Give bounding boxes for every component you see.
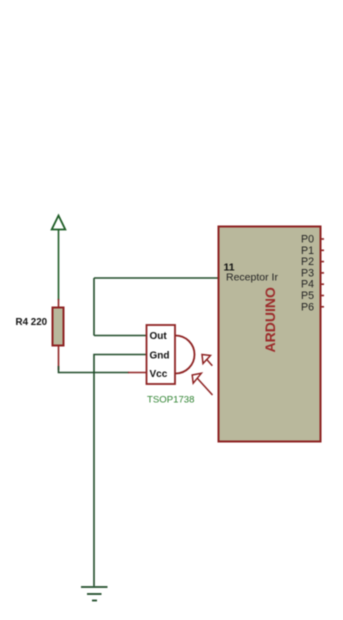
ground symbol (81, 587, 108, 601)
svg-text:Gnd: Gnd (150, 351, 170, 362)
wire vertical segment pin11 node down to Out wire (93, 278, 95, 336)
svg-text:Vcc: Vcc (150, 369, 168, 380)
wire from node to TSOP Out pin (94, 335, 147, 337)
svg-text:P4: P4 (301, 279, 314, 291)
svg-text:ARDUINO: ARDUINO (262, 287, 278, 352)
svg-text:P0: P0 (301, 234, 314, 246)
power symbol VCC arrow (52, 216, 66, 301)
pin stub P4 (321, 283, 325, 285)
resistor R4 body (53, 308, 64, 346)
svg-text:R4 220: R4 220 (16, 317, 48, 328)
pin stub P6 (321, 306, 325, 308)
svg-text:Out: Out (150, 331, 168, 342)
resistor R1 top pin lead (58, 299, 60, 308)
svg-text:P5: P5 (301, 290, 314, 302)
wire from Arduino pin 11 to node at x=94 (94, 277, 218, 279)
pin stub P0 (321, 238, 325, 240)
pin stub P5 (321, 295, 325, 297)
svg-text:P2: P2 (301, 256, 314, 268)
IR receiver U1 TSOP1738 body (147, 325, 176, 384)
TSOP1738 lens dome (176, 336, 195, 374)
pin Vcc lead of TSOP1738 (red stub) (128, 372, 147, 374)
pin stub P2 (321, 261, 325, 263)
wire from TSOP Gnd pin to ground rail corner (94, 355, 147, 587)
svg-text:Receptor Ir: Receptor Ir (226, 272, 278, 284)
pin stub P1 (321, 249, 325, 251)
svg-text:TSOP1738: TSOP1738 (147, 395, 194, 406)
pin stub P3 (321, 272, 325, 274)
resistor R4 bottom pin lead (58, 345, 60, 370)
IR ray arrow 1 (upper) (202, 355, 212, 366)
svg-text:P6: P6 (301, 301, 314, 313)
svg-text:P3: P3 (301, 267, 314, 279)
wire from resistor bottom to Vcc pin (green part) (59, 366, 130, 373)
IR ray arrow 2 (lower) (192, 373, 212, 395)
svg-text:P1: P1 (301, 245, 314, 257)
Arduino U2 body (219, 227, 321, 442)
